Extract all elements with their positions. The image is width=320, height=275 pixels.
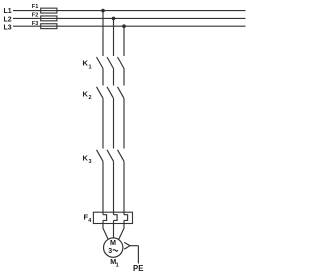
wire phase3 K3 to F4 [123,161,125,214]
wire phase2 K3 to F4 [113,161,115,214]
wire phase3 K2 to K3 [123,98,125,148]
contactor K1 pole 1 [97,57,104,69]
wire phase3 F4 to motor [119,220,124,239]
wire L3 [13,25,246,27]
svg-text:PE: PE [133,264,143,273]
wire phase1 L1 to K1 [102,11,104,56]
label M1 [110,257,118,269]
contactor K3 pole 1 [97,150,104,162]
F4 thermal element 1 [103,215,107,221]
svg-text:3: 3 [89,159,92,165]
svg-text:L3: L3 [4,25,12,32]
fuse F3 [32,21,57,29]
label K1 [83,59,92,71]
wire PE vertical [137,246,139,264]
wire PE horizontal [130,245,139,247]
label K2 [83,90,92,102]
contactor K3 pole 2 [107,150,114,162]
svg-text:3: 3 [108,248,112,255]
svg-text:L1: L1 [4,8,12,15]
wire phase3 K1 to K2 [123,69,125,86]
svg-text:1: 1 [89,64,92,70]
F4 thermal element 3 [124,215,128,221]
wire phase2 L2 to K1 [113,18,115,56]
contactor K2 pole 3 [118,87,125,99]
svg-text:1: 1 [116,263,119,269]
F4 thermal element 2 [114,215,118,221]
svg-text:F3: F3 [32,21,39,27]
wire phase1 K2 to K3 [102,98,104,148]
contactor K3 pole 3 [118,150,125,162]
wire phase1 F4 to motor [103,220,108,239]
wire phase2 F4 to motor [113,220,115,238]
wire L2 [13,17,246,19]
wire phase1 K1 to K2 [102,69,104,86]
svg-text:2: 2 [89,95,92,101]
svg-text:L2: L2 [4,16,12,23]
contactor K1 pole 2 [107,57,114,69]
wire phase1 K3 to F4 [102,161,104,214]
svg-text:F1: F1 [32,4,39,10]
svg-text:F2: F2 [32,13,39,19]
motor M1 [104,238,123,257]
junction on L3 [122,24,126,28]
contactor K2 pole 1 [97,87,104,99]
junction on L2 [112,17,116,21]
fuse F1 [32,4,57,13]
label K3 [83,154,92,166]
overload relay F4 box [93,212,132,223]
svg-text:M: M [110,238,116,247]
wire phase2 K1 to K2 [113,69,115,86]
wire phase2 K2 to K3 [113,98,115,148]
wire phase3 L3 to K1 [123,26,125,56]
junction on L1 [101,9,105,13]
contactor K1 pole 3 [118,57,125,69]
contactor K2 pole 2 [107,87,114,99]
PE connector chevron [124,242,130,249]
fuse F2 [32,13,57,21]
wire L1 [13,10,246,12]
label F4 [84,213,93,225]
